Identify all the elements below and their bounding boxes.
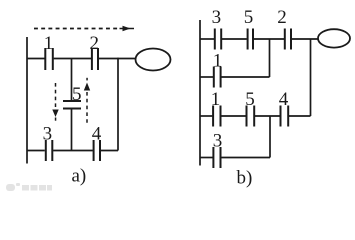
svg-text:1: 1 (213, 51, 223, 72)
svg-text:5: 5 (244, 7, 254, 28)
svg-text:2: 2 (90, 33, 100, 54)
svg-text:1: 1 (44, 33, 54, 54)
svg-text:4: 4 (279, 89, 289, 110)
svg-text:5: 5 (72, 84, 82, 105)
svg-text:4: 4 (92, 123, 102, 144)
svg-text:5: 5 (245, 89, 255, 110)
svg-text:2: 2 (277, 7, 287, 28)
svg-text:1: 1 (211, 89, 221, 110)
svg-text:3: 3 (213, 130, 223, 151)
svg-text:3: 3 (212, 7, 222, 28)
svg-text:3: 3 (43, 123, 53, 144)
svg-text:a): a) (72, 166, 87, 187)
svg-text:b): b) (237, 168, 253, 189)
